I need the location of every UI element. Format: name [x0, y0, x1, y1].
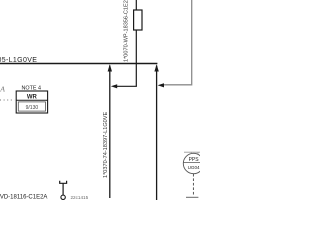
bus main y=63.5	[0, 63, 157, 65]
terminal circle	[61, 195, 65, 199]
terminal bar bottom right	[186, 196, 198, 198]
svg-text:WR: WR	[27, 95, 38, 101]
instrument bubble PPS UG04	[183, 153, 203, 173]
arrow up at bus (right branch)	[154, 64, 158, 71]
svg-text:PPS: PPS	[189, 157, 200, 163]
fuse F1	[134, 10, 142, 30]
arrow left into branch x=110	[111, 84, 117, 88]
svg-text:22c1415: 22c1415	[71, 195, 89, 200]
wire: left branch vertical x=110	[109, 66, 111, 199]
wire: dotted leader	[0, 99, 15, 101]
relay box WR	[16, 91, 47, 113]
svg-text:UG04: UG04	[188, 165, 200, 170]
wire: dash boundary above instrument	[184, 152, 200, 154]
svg-text:A: A	[0, 85, 5, 94]
svg-text:9/130: 9/130	[26, 105, 39, 111]
svg-text:05-L1G0VE: 05-L1G0VE	[0, 57, 37, 64]
arrow left into right branch	[158, 83, 164, 87]
svg-text:1*0070-WP-18356-C1E2A: 1*0070-WP-18356-C1E2A	[124, 0, 130, 62]
arrow up at bus (left branch)	[108, 64, 112, 71]
svg-text:UVD-18116-C1E2A: UVD-18116-C1E2A	[0, 195, 47, 200]
wire: incoming gray feeder from top right	[163, 0, 192, 85]
wire: right branch vertical x=156.6	[156, 66, 158, 201]
connector yoke	[60, 181, 67, 184]
wire: dashed signal below instrument	[192, 174, 194, 196]
wire: fuse tail horizontal to branch	[117, 85, 137, 87]
svg-text:1*0370-74-18397-L1G0VE: 1*0370-74-18397-L1G0VE	[103, 111, 109, 178]
wire: yoke stem	[62, 183, 64, 195]
relay box inner cell 9/130	[18, 102, 45, 111]
wire: fuse feeder vertical x=136	[135, 0, 137, 86]
